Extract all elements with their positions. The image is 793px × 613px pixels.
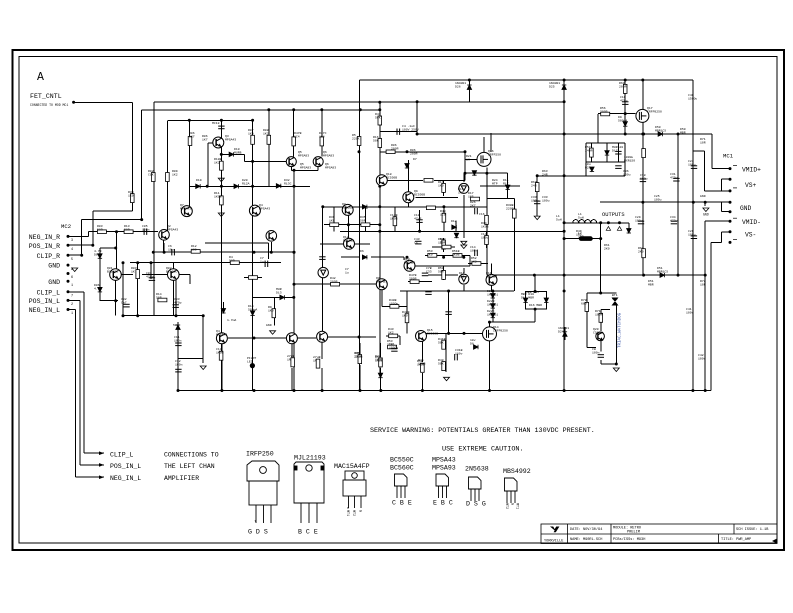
svg-text:MT2: MT2 <box>504 503 508 509</box>
svg-text:MPSA43: MPSA43 <box>216 332 227 336</box>
svg-text:100u: 100u <box>481 235 489 239</box>
svg-text:200R: 200R <box>410 151 418 155</box>
svg-text:2K0: 2K0 <box>638 249 644 253</box>
svg-text:1K0: 1K0 <box>268 308 274 312</box>
svg-text:DATE: NOV/30/94: DATE: NOV/30/94 <box>570 527 602 532</box>
svg-text:VMID-: VMID- <box>742 219 761 226</box>
svg-text:24R: 24R <box>531 183 537 187</box>
svg-text:MBR D15: MBR D15 <box>526 290 539 294</box>
svg-text:1K2: 1K2 <box>388 330 394 334</box>
svg-text:2K0: 2K0 <box>427 252 433 256</box>
svg-text:1000p: 1000p <box>389 345 398 349</box>
svg-text:50R: 50R <box>360 218 366 222</box>
svg-text:MBR1C5: MBR1C5 <box>657 269 668 273</box>
svg-text:D12: D12 <box>451 219 457 223</box>
svg-text:E B C: E B C <box>433 500 453 507</box>
svg-text:1K0: 1K0 <box>329 218 335 222</box>
svg-text:470p: 470p <box>174 300 182 304</box>
svg-text:1K2: 1K2 <box>214 160 220 164</box>
svg-text:4.7B: 4.7B <box>94 286 102 290</box>
svg-text:GND: GND <box>48 279 60 286</box>
svg-text:R1K: R1K <box>503 181 509 185</box>
svg-text:BC550B: BC550B <box>427 331 438 335</box>
svg-text:1K0B: 1K0B <box>452 252 460 256</box>
svg-text:50K: 50K <box>438 361 444 365</box>
svg-text:BC550C: BC550C <box>390 457 414 464</box>
svg-text:200R: 200R <box>619 84 627 88</box>
svg-text:500mA: 500mA <box>248 307 257 311</box>
svg-text:MC1: MC1 <box>723 153 734 160</box>
svg-text:BC560C: BC560C <box>166 269 177 273</box>
svg-text:1R: 1R <box>313 358 317 362</box>
svg-text:100u: 100u <box>688 232 696 236</box>
svg-text:1N4001: 1N4001 <box>487 302 498 306</box>
svg-text:50R: 50R <box>156 295 162 299</box>
svg-text:D26: D26 <box>455 84 461 88</box>
svg-text:SERVICE WARNING: POTENTIALS GR: SERVICE WARNING: POTENTIALS GREATER THAN… <box>370 427 595 435</box>
svg-text:1N5: 1N5 <box>458 190 464 194</box>
svg-text:A: A <box>37 71 44 84</box>
svg-text:NEG_IN_R: NEG_IN_R <box>29 234 60 241</box>
svg-text:VS+: VS+ <box>745 182 757 189</box>
svg-text:2N5638: 2N5638 <box>465 466 489 473</box>
svg-text:1K0B: 1K0B <box>481 224 489 228</box>
svg-text:1500u: 1500u <box>688 96 697 100</box>
svg-text:1R0: 1R0 <box>576 232 582 236</box>
svg-text:MURB: MURB <box>234 150 242 154</box>
svg-text:MAC15A4FP: MAC15A4FP <box>334 463 370 470</box>
svg-text:THE LEFT CHAN: THE LEFT CHAN <box>164 463 215 470</box>
svg-text:GND: GND <box>703 213 709 217</box>
svg-text:OUTPUTS: OUTPUTS <box>602 212 625 218</box>
svg-text:D24: D24 <box>558 329 564 333</box>
svg-text:VS-: VS- <box>745 232 756 239</box>
svg-text:50R: 50R <box>97 227 103 231</box>
svg-text:4: 4 <box>71 248 73 252</box>
svg-text:MT1: MT1 <box>515 503 519 509</box>
svg-text:1R: 1R <box>287 357 291 361</box>
svg-text:USE EXTREME CAUTION.: USE EXTREME CAUTION. <box>442 445 524 453</box>
svg-text:MBS4992: MBS4992 <box>503 468 531 475</box>
svg-text:50R: 50R <box>440 240 446 244</box>
svg-text:G: G <box>358 510 362 512</box>
svg-text:1K0: 1K0 <box>402 313 408 317</box>
svg-text:100n: 100n <box>592 350 600 354</box>
svg-text:PCBs/ISSs: M93H: PCBs/ISSs: M93H <box>613 537 645 542</box>
svg-text:1K: 1K <box>131 269 135 273</box>
svg-text:100u: 100u <box>635 218 643 222</box>
svg-text:1K0B: 1K0B <box>214 194 222 198</box>
svg-text:200R: 200R <box>409 276 417 280</box>
svg-text:C5000: C5000 <box>593 330 602 334</box>
svg-text:50K: 50K <box>438 340 444 344</box>
svg-text:2: 2 <box>71 303 73 307</box>
svg-text:D8: D8 <box>470 341 474 345</box>
svg-text:MPSA93: MPSA93 <box>432 465 456 472</box>
svg-text:SCH ISSUE: 1.1B: SCH ISSUE: 1.1B <box>736 528 769 532</box>
svg-text:BC560C: BC560C <box>107 269 118 273</box>
svg-text:10R: 10R <box>700 140 706 144</box>
svg-text:1000p: 1000p <box>389 301 398 305</box>
svg-text:100u: 100u <box>640 176 648 180</box>
svg-text:MPSA43: MPSA43 <box>167 227 178 231</box>
svg-text:100n: 100n <box>142 227 150 231</box>
svg-text:MC18: MC18 <box>212 121 220 125</box>
svg-text:10u: 10u <box>168 247 174 251</box>
svg-text:POS_IN_L: POS_IN_L <box>29 298 60 305</box>
svg-text:470u: 470u <box>670 175 678 179</box>
svg-text:100v: 100v <box>698 356 706 360</box>
svg-text:C16: C16 <box>479 212 485 216</box>
svg-text:50R: 50R <box>229 258 235 262</box>
svg-text:1u: 1u <box>260 259 264 263</box>
svg-text:MPSA43: MPSA43 <box>259 206 270 210</box>
svg-text:1K0B: 1K0B <box>390 216 398 220</box>
svg-text:LED: LED <box>247 359 253 363</box>
svg-text:NEG_IN_L: NEG_IN_L <box>29 307 60 314</box>
svg-text:GND: GND <box>266 323 272 327</box>
svg-text:1C4: 1C4 <box>294 134 300 138</box>
svg-text:FET_CNTL: FET_CNTL <box>30 93 62 100</box>
svg-text:MJL21193: MJL21193 <box>294 455 326 462</box>
svg-text:100n: 100n <box>174 338 182 342</box>
svg-text:MPSA93: MPSA93 <box>323 153 334 157</box>
svg-text:CLIP_L: CLIP_L <box>110 451 134 458</box>
svg-text:MPSA93: MPSA93 <box>486 274 497 278</box>
svg-text:1K7: 1K7 <box>202 137 208 141</box>
svg-text:1.7mA: 1.7mA <box>227 318 236 322</box>
svg-text:R13C: R13C <box>284 181 292 185</box>
svg-text:2K0: 2K0 <box>604 246 610 250</box>
svg-text:3: 3 <box>71 239 73 243</box>
svg-text:Ca7: Ca7 <box>121 300 127 304</box>
svg-text:B C E: B C E <box>298 529 318 536</box>
svg-text:MPSA93: MPSA93 <box>300 165 311 169</box>
svg-text:VMID+: VMID+ <box>742 166 761 173</box>
svg-text:2: 2 <box>71 268 73 272</box>
svg-text:BC560C: BC560C <box>390 465 414 472</box>
svg-text:2K7: 2K7 <box>470 203 476 207</box>
svg-text:50R: 50R <box>438 269 444 273</box>
svg-text:D19: D19 <box>196 178 202 182</box>
svg-text:D S G: D S G <box>466 501 486 508</box>
svg-text:D7: D7 <box>413 157 417 161</box>
svg-text:470p: 470p <box>146 274 154 278</box>
svg-text:NEG_IN_L: NEG_IN_L <box>110 475 141 482</box>
svg-text:D23: D23 <box>585 165 591 169</box>
svg-text:1K7: 1K7 <box>189 134 195 138</box>
svg-text:50R: 50R <box>124 227 130 231</box>
svg-text:100u: 100u <box>542 198 550 202</box>
svg-text:MT2: MT2 <box>612 296 618 300</box>
svg-text:MPSA93: MPSA93 <box>325 165 336 169</box>
svg-text:47uF: 47uF <box>414 216 422 220</box>
svg-text:5: 5 <box>71 258 73 262</box>
svg-text:1K0B: 1K0B <box>216 350 224 354</box>
svg-text:100u: 100u <box>654 197 662 201</box>
svg-text:MPSA43: MPSA43 <box>180 206 191 210</box>
svg-text:100R: 100R <box>595 312 603 316</box>
svg-text:IRFP250: IRFP250 <box>488 152 501 156</box>
svg-text:200R: 200R <box>391 146 399 150</box>
svg-text:1N5: 1N5 <box>468 194 474 198</box>
svg-text:R12A: R12A <box>242 181 250 185</box>
svg-text:MBR: MBR <box>680 130 686 134</box>
svg-text:470u: 470u <box>670 218 678 222</box>
svg-text:MBR: MBR <box>648 282 654 286</box>
svg-text:MBR1C5: MBR1C5 <box>655 128 666 132</box>
svg-text:TITLE: PWR_AMP: TITLE: PWR_AMP <box>721 538 751 542</box>
svg-text:7: 7 <box>71 295 73 299</box>
svg-text:D6: D6 <box>360 249 364 253</box>
svg-text:1u: 1u <box>345 270 349 274</box>
svg-text:D06: D06 <box>94 252 100 256</box>
svg-text:100V 250V: 100V 250V <box>402 127 419 131</box>
svg-text:1K0: 1K0 <box>248 131 254 135</box>
svg-text:MPSA43: MPSA43 <box>432 457 456 464</box>
svg-text:D16 MBR: D16 MBR <box>529 303 542 307</box>
svg-text:IRFP9250: IRFP9250 <box>493 328 508 332</box>
svg-text:1K0B: 1K0B <box>418 361 426 365</box>
svg-text:1N5: 1N5 <box>459 274 465 278</box>
svg-text:BC550B: BC550B <box>414 192 425 196</box>
svg-text:1K0B: 1K0B <box>375 357 383 361</box>
svg-text:POS_IN_L: POS_IN_L <box>110 463 141 470</box>
svg-text:G D S: G D S <box>248 529 268 536</box>
svg-text:10R: 10R <box>700 282 706 286</box>
svg-text:1K: 1K <box>466 157 470 161</box>
svg-text:IRFP250: IRFP250 <box>246 451 274 458</box>
svg-text:50K: 50K <box>373 138 379 142</box>
svg-text:BC550B: BC550B <box>343 238 354 242</box>
svg-text:470p: 470p <box>620 98 628 102</box>
svg-text:680: 680 <box>581 301 587 305</box>
svg-text:500mA: 500mA <box>618 118 627 122</box>
svg-text:MPSA93: MPSA93 <box>298 153 309 157</box>
svg-text:1C0: 1C0 <box>440 212 446 216</box>
svg-text:6: 6 <box>71 276 73 280</box>
svg-text:100u: 100u <box>688 162 696 166</box>
svg-text:50u: 50u <box>173 323 179 327</box>
svg-text:D25: D25 <box>549 84 555 88</box>
svg-text:1K2: 1K2 <box>263 131 269 135</box>
svg-text:220R: 220R <box>506 206 514 210</box>
svg-text:100u: 100u <box>531 198 539 202</box>
svg-text:1: 1 <box>71 312 73 316</box>
svg-text:100v: 100v <box>686 310 694 314</box>
svg-text:100n: 100n <box>470 248 478 252</box>
svg-text:1K0: 1K0 <box>438 183 444 187</box>
svg-text:TRIAC_WATCHDOG: TRIAC_WATCHDOG <box>619 312 623 348</box>
svg-text:MPSA93: MPSA93 <box>376 279 387 283</box>
svg-text:1K2: 1K2 <box>471 259 477 263</box>
svg-text:24R: 24R <box>542 172 548 176</box>
svg-text:MXR150: MXR150 <box>624 158 635 162</box>
svg-text:GND: GND <box>48 263 60 270</box>
svg-text:1K0: 1K0 <box>128 193 134 197</box>
svg-text:BC550B: BC550B <box>386 175 397 179</box>
svg-text:CONNECTIONS TO: CONNECTIONS TO <box>164 451 219 458</box>
svg-text:1: 1 <box>71 284 73 288</box>
svg-text:CLIP_L: CLIP_L <box>37 289 61 296</box>
svg-text:C1K: C1K <box>148 172 154 176</box>
svg-text:D16 MBR: D16 MBR <box>521 295 534 299</box>
svg-text:MC2: MC2 <box>61 223 71 230</box>
svg-text:NAME: M90RL.SCH: NAME: M90RL.SCH <box>570 538 602 542</box>
svg-text:MPSA43: MPSA43 <box>225 137 236 141</box>
svg-text:D17: D17 <box>612 148 618 152</box>
svg-text:5uH: 5uH <box>578 215 584 219</box>
svg-text:MTP: MTP <box>492 181 498 185</box>
svg-text:Cx: Cx <box>414 240 418 244</box>
svg-text:MT2: MT2 <box>351 510 355 516</box>
svg-text:*: * <box>254 520 257 526</box>
svg-text:AMPLIFIER: AMPLIFIER <box>164 475 199 482</box>
svg-text:GND: GND <box>740 205 752 212</box>
svg-text:240R: 240R <box>585 148 593 152</box>
svg-text:1C4: 1C4 <box>319 134 325 138</box>
svg-text:C33: C33 <box>426 269 432 273</box>
svg-text:G: G <box>510 503 514 505</box>
svg-text:CONNECTED TO MOD MC1: CONNECTED TO MOD MC1 <box>30 103 68 107</box>
svg-text:100n: 100n <box>175 362 183 366</box>
svg-text:GND: GND <box>700 194 706 198</box>
svg-text:160v: 160v <box>455 351 463 355</box>
svg-text:50K: 50K <box>375 115 381 119</box>
svg-text:IRFP9250: IRFP9250 <box>647 109 662 113</box>
svg-text:*: * <box>347 507 350 513</box>
svg-text:100: 100 <box>191 247 197 251</box>
svg-text:200R: 200R <box>600 109 608 113</box>
svg-text:1N4001: 1N4001 <box>487 292 498 296</box>
svg-text:CLIP_R: CLIP_R <box>37 253 61 260</box>
svg-text:C B E: C B E <box>392 500 412 507</box>
svg-text:POS_IN_R: POS_IN_R <box>29 243 60 250</box>
svg-text:200R: 200R <box>330 279 338 283</box>
svg-text:MPSA93: MPSA93 <box>404 260 415 264</box>
svg-text:5uH: 5uH <box>556 217 562 221</box>
svg-text:BC550B: BC550B <box>342 205 353 209</box>
svg-text:220K: 220K <box>352 136 360 140</box>
svg-text:100u: 100u <box>623 172 631 176</box>
svg-text:D13: D13 <box>276 290 282 294</box>
svg-text:PRELIM: PRELIM <box>627 531 640 535</box>
svg-text:220R: 220R <box>354 354 362 358</box>
svg-text:1N4001: 1N4001 <box>487 312 498 316</box>
svg-text:YORKVILLE: YORKVILLE <box>544 540 563 544</box>
svg-text:1K2: 1K2 <box>172 172 178 176</box>
